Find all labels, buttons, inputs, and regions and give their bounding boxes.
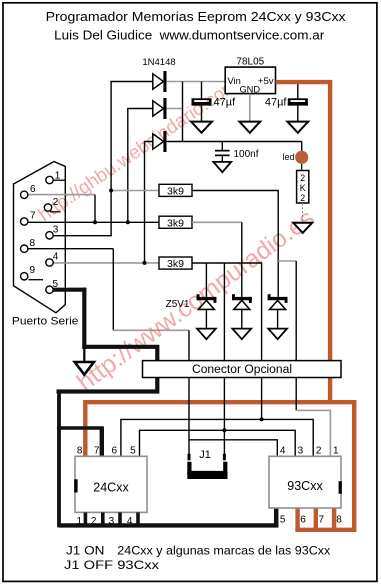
svg-text:47µf: 47µf [265, 96, 288, 108]
svg-text:4: 4 [53, 252, 59, 263]
ground under 2K2 [293, 223, 312, 233]
wire J1 pin2 riser [223, 430, 225, 454]
wire D3 output line to LED [166, 141, 302, 143]
wire pin8 drop through bar to J1 [188, 330, 190, 454]
93Cxx bottom pin numbers [280, 515, 342, 526]
svg-text:3: 3 [109, 516, 115, 527]
capacitor C1 47uf [192, 82, 237, 122]
svg-text:93Cxx: 93Cxx [287, 479, 323, 493]
svg-text:8: 8 [30, 238, 36, 249]
ground under C2 [287, 122, 308, 133]
DB9 pin 9 [21, 265, 44, 280]
svg-text:7: 7 [94, 446, 100, 457]
node dot pin6 junction [93, 220, 97, 224]
svg-text:led: led [282, 152, 294, 162]
svg-text:J1: J1 [199, 449, 211, 461]
zener Z2 [232, 294, 252, 328]
svg-text:47µf: 47µf [214, 96, 237, 108]
wire 2K2 to ground [302, 203, 304, 223]
svg-text:3k9: 3k9 [167, 258, 184, 270]
svg-text:4: 4 [127, 516, 133, 527]
wire line A 24Cxx pin6 to 93Cxx pin2 [121, 419, 313, 456]
svg-text:1: 1 [55, 171, 61, 182]
node dot line A [260, 417, 264, 421]
wire 93Cxx pin8 stub (orange) [332, 508, 336, 532]
svg-text:8: 8 [77, 446, 83, 457]
node dot line B [222, 428, 226, 432]
diode D3 [153, 131, 167, 152]
svg-text:2: 2 [300, 173, 305, 183]
svg-text:1N4148: 1N4148 [142, 57, 175, 68]
wire 93Cxx pin6 stub (orange) [295, 508, 299, 532]
wire R2 output to Z2 [192, 221, 242, 223]
watermark http://www.compuradio.es [72, 204, 320, 397]
24Cxx top pin numbers [77, 446, 136, 457]
svg-text:Luis Del Giudice www.dumontse: Luis Del Giudice www.dumontservice.com.a… [54, 28, 325, 43]
svg-text:J1 OFF 93Cxx: J1 OFF 93Cxx [64, 558, 160, 572]
svg-text:3k9: 3k9 [167, 186, 184, 198]
svg-text:4: 4 [280, 446, 286, 457]
IC socket 24Cxx [74, 456, 147, 512]
svg-text:2: 2 [300, 193, 305, 203]
svg-text:100nf: 100nf [234, 149, 259, 160]
ground under 78L05 [239, 122, 260, 133]
svg-text:3k9: 3k9 [167, 217, 184, 229]
wire line C J1 to 93Cxx pin4 [189, 440, 277, 457]
wire 93Cxx pin7 stub (orange) [314, 508, 318, 532]
svg-text:Programador Memorias Eeprom 24: Programador Memorias Eeprom 24Cxx y 93Cx… [46, 9, 347, 24]
jumper J1 [187, 449, 227, 479]
watermark http://ghbu.webcindario.com [35, 75, 242, 227]
wire +5v bus under 93Cxx (orange) [295, 528, 354, 532]
svg-text:2: 2 [91, 516, 97, 527]
capacitor C2 47uf [265, 82, 308, 122]
node dot D2 junction [126, 220, 130, 224]
zener Z3 [268, 294, 288, 328]
svg-text:5: 5 [130, 446, 136, 457]
svg-text:GND: GND [239, 84, 260, 94]
wire to ground arrow [83, 348, 85, 362]
wire R1 output to Z3 drop [192, 191, 278, 297]
diode D2 [153, 98, 167, 119]
svg-text:+5v: +5v [258, 76, 274, 87]
wire diode D3 anode riser [145, 142, 153, 263]
wire Z1 branch [205, 263, 207, 297]
regulator U1 78L05 [225, 57, 275, 95]
DB9 pin 8 [21, 238, 114, 330]
svg-text:6: 6 [112, 446, 118, 457]
wire R3 drop through bar to line B [223, 263, 225, 430]
resistor R4 2K2 [297, 171, 309, 204]
svg-text:7: 7 [319, 515, 325, 526]
svg-text:3: 3 [53, 225, 59, 236]
svg-text:J1 ON: J1 ON [66, 544, 105, 558]
diode D1 [153, 71, 167, 92]
svg-text:6: 6 [300, 515, 306, 526]
ground under Z1 [197, 329, 216, 340]
wire 93Cxx pin1 riser [295, 261, 297, 410]
svg-text:K: K [300, 183, 306, 193]
ground under Z2 [232, 329, 251, 340]
svg-text:Puerto Serie: Puerto Serie [12, 316, 79, 328]
wire cathode rail vertical [182, 82, 184, 142]
zener Z1 Z5V1 [166, 294, 217, 328]
svg-text:6: 6 [30, 184, 36, 195]
wire diode D1 anode from DB9 pin3 riser [111, 82, 153, 237]
IC socket 93Cxx [269, 456, 342, 508]
svg-text:5: 5 [280, 515, 286, 526]
svg-text:3: 3 [298, 446, 304, 457]
ground under C3 [213, 162, 231, 172]
ground arrow near DB9 [75, 362, 94, 375]
svg-text:5: 5 [53, 279, 59, 290]
svg-text:Conector Opcional: Conector Opcional [192, 364, 292, 376]
wire gnd branch to 24Cxx pin7 [57, 426, 104, 430]
DB9 pin 2 [44, 197, 60, 212]
DB9 pin 3 [46, 225, 112, 240]
svg-text:9: 9 [30, 265, 36, 276]
node dot R1 line [109, 189, 113, 193]
DB9 pin 4 [46, 252, 159, 267]
conector opcional bar [143, 361, 342, 378]
93Cxx top pin numbers [280, 446, 339, 457]
wire +5v output horizontal (orange) [276, 80, 333, 84]
wire D2 cathode to rail [166, 108, 183, 110]
wire D1 cathode to 78L05 Vin [166, 81, 225, 83]
wire gnd left vertical to bottom [57, 390, 61, 528]
wire branch R1 drop to 93Cxx pin1 path [278, 260, 296, 262]
svg-text:24Cxx: 24Cxx [93, 481, 129, 495]
led D4 [282, 142, 308, 171]
node dot D3 junction [143, 261, 147, 265]
thick gnd bus from DB9 pin5 [57, 288, 158, 392]
wire R3 output [192, 263, 262, 419]
wire +5v far right drop (orange) [352, 402, 356, 532]
wire GND of 78L05 [249, 94, 251, 122]
wire +5v to 24Cxx pin8 (orange) [83, 400, 87, 456]
svg-text:2: 2 [53, 197, 59, 208]
wire +5v right drop (orange) [328, 82, 332, 402]
DB9 pin 7 wire to R2 [21, 211, 160, 226]
svg-text:24Cxx y algunas marcas de las: 24Cxx y algunas marcas de las 93Cxx [117, 544, 331, 558]
svg-text:Z5V1: Z5V1 [166, 299, 190, 310]
svg-text:7: 7 [30, 211, 36, 222]
ground under Z3 [268, 329, 287, 340]
svg-text:2: 2 [316, 446, 322, 457]
svg-text:1: 1 [77, 516, 83, 527]
svg-text:8: 8 [336, 515, 342, 526]
resistor R2 3k9 [159, 216, 192, 229]
DB9 pin 6 [21, 184, 96, 223]
wire pin8 horizontal to bar drop [113, 329, 189, 331]
connector DB9 Puerto Serie [12, 162, 79, 328]
DB9 pin 1 [46, 171, 66, 184]
wire gnd bottom bus to 93Cxx pin5 [59, 523, 275, 527]
wire +5v bottom horizontal (orange) [85, 400, 356, 404]
svg-text:78L05: 78L05 [236, 57, 264, 68]
wire diode D2 anode riser [128, 109, 153, 223]
svg-text:1: 1 [333, 446, 339, 457]
wire line B 24Cxx pin5 to 93Cxx pin3 [140, 430, 296, 456]
ground under C1 [191, 122, 212, 133]
resistor R3 3k9 [159, 257, 192, 270]
capacitor C3 100nf [215, 142, 259, 162]
24Cxx bottom pin stubs to gnd [85, 512, 138, 524]
resistor R1 3k9 [111, 184, 192, 197]
DB9 pin 5 thick gnd wire [46, 279, 87, 293]
